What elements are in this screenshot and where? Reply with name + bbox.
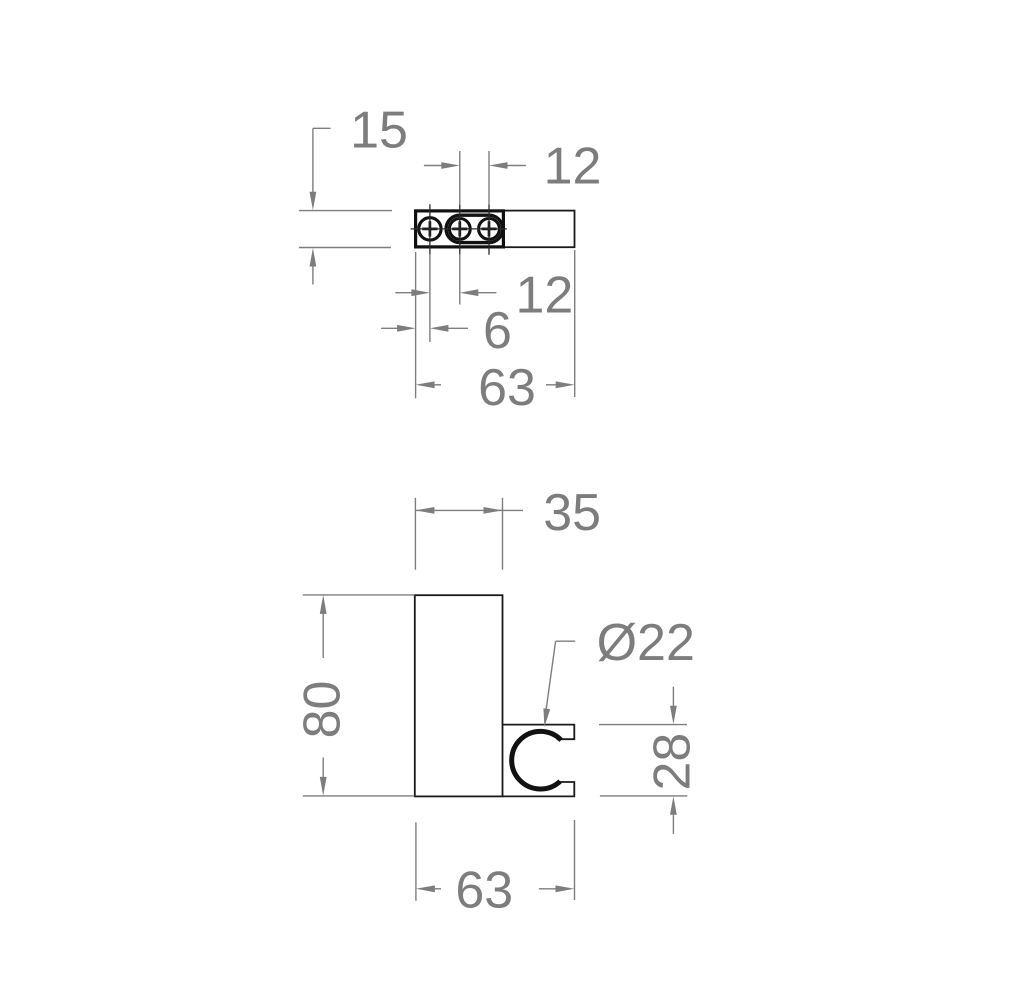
- svg-text:Ø22: Ø22: [597, 614, 695, 672]
- svg-text:35: 35: [543, 484, 601, 542]
- svg-text:28: 28: [644, 733, 702, 791]
- svg-text:6: 6: [483, 302, 512, 360]
- svg-text:12: 12: [515, 267, 573, 325]
- svg-text:12: 12: [544, 138, 602, 196]
- svg-text:15: 15: [350, 102, 408, 160]
- svg-text:63: 63: [455, 862, 513, 920]
- svg-text:80: 80: [294, 681, 352, 739]
- svg-text:63: 63: [478, 359, 536, 417]
